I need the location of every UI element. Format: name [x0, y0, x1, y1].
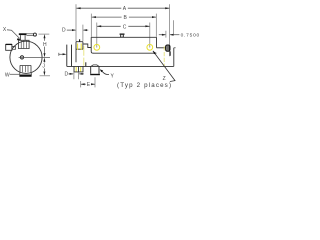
right upper vertical segment: [173, 20, 175, 34]
left screw box: [6, 44, 12, 50]
extension/centerline hole 1: [96, 23, 98, 48]
svg-text:X: X: [3, 27, 7, 33]
right knurled knob: [166, 45, 170, 51]
svg-text:D: D: [64, 71, 68, 77]
side view left face with rounded corner: [91, 37, 93, 53]
dimension J: [43, 61, 45, 71]
T-bar stem lines: [27, 34, 34, 36]
svg-text:C: C: [123, 24, 127, 30]
pads below left assembly: [74, 66, 83, 72]
dimension 0.7500: [165, 31, 167, 38]
left assembly: tip bar 2: [71, 45, 73, 67]
side view body top edge: [91, 36, 156, 38]
svg-text:Y: Y: [111, 74, 115, 80]
small arrow at left tip: [58, 53, 60, 56]
leader Y: [102, 71, 109, 74]
extension line B left: [90, 14, 92, 37]
hole 2 (yellow): [147, 44, 153, 50]
dimension H: [39, 33, 50, 35]
dimension E (bottom): [80, 81, 82, 87]
left assembly: tip bar 1: [66, 45, 68, 67]
hole 1 (yellow): [94, 44, 100, 50]
extension line A left: [75, 4, 77, 41]
top button on body: [120, 34, 125, 35]
dimension B arrowheads: [92, 16, 157, 18]
foot bump above bottom line: [91, 65, 99, 66]
left screw stem: [12, 46, 15, 49]
hub horizontal line: [19, 56, 50, 58]
dimension A line: [76, 7, 169, 9]
svg-text:B: B: [124, 15, 128, 21]
left assembly: washer line: [75, 42, 77, 63]
left assembly: neck steps: [83, 44, 91, 48]
svg-text:J: J: [42, 63, 45, 69]
svg-text:W: W: [5, 72, 10, 78]
foot below body: [91, 66, 99, 73]
top knurl box: [19, 40, 30, 48]
left assembly: block yellow lines: [78, 44, 82, 50]
dimension C line: [97, 25, 150, 27]
dimension B line: [92, 16, 157, 18]
bottom knurl box: [20, 65, 31, 72]
main circle: [10, 41, 42, 73]
left assembly: block: [76, 42, 83, 50]
foot (end view): [20, 73, 32, 75]
extension line A right: [169, 4, 171, 56]
pad yellow centerlines: [76, 67, 81, 72]
extension/centerline hole 2: [149, 23, 151, 48]
neck verticals under cap: [20, 35, 25, 40]
leader from hole 2 to text: [153, 51, 175, 82]
left assembly: yellow centerline: [83, 46, 85, 66]
side view right face: [156, 37, 158, 48]
dimension A arrowheads: [76, 7, 169, 9]
hub circle: [20, 56, 23, 59]
extension line D right: [82, 25, 84, 42]
svg-text:D: D: [62, 28, 66, 34]
neck lower edge bar: [85, 62, 87, 66]
svg-text:Z: Z: [163, 76, 166, 82]
svg-text:0.7500: 0.7500: [181, 32, 200, 38]
svg-text:A: A: [123, 6, 127, 12]
side view bottom line: [67, 65, 174, 67]
side view mid edge: [93, 52, 156, 54]
right knob stem: [169, 51, 171, 56]
T-bar cap (thick): [19, 33, 27, 35]
left assembly: block mid stick: [79, 39, 81, 41]
yellow centerline right step: [163, 46, 165, 66]
extension line B right: [155, 14, 157, 37]
svg-text:E: E: [87, 82, 91, 88]
svg-text:H: H: [43, 42, 47, 48]
right lower vertical: [173, 48, 175, 67]
T-bar end block: [33, 33, 36, 36]
dimension C arrowheads: [97, 25, 150, 27]
right step edge: [157, 47, 166, 49]
svg-text:(Typ 2 places): (Typ 2 places): [117, 82, 171, 89]
